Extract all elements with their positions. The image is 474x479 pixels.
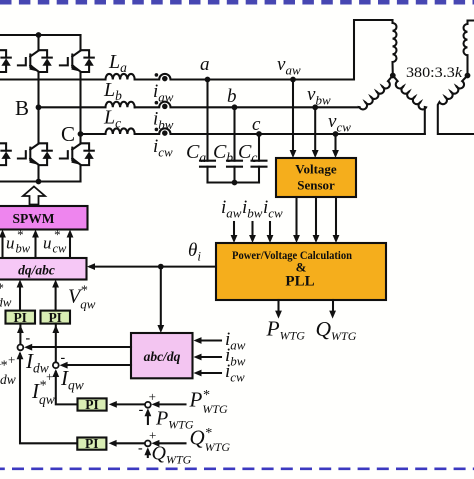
transformer primary wye: right winding	[393, 76, 426, 135]
node: junction on - rail	[36, 179, 42, 185]
transistor S1 (top, phase a, partially cut)	[0, 50, 11, 72]
wire+arrow: v_aw into voltage sensor	[292, 80, 294, 152]
node C junction	[78, 131, 84, 137]
summing junction (Q loop)	[145, 441, 151, 447]
current sensor iaw	[155, 73, 168, 81]
svg-text:PI: PI	[48, 310, 62, 325]
wire+arrow: P*_WTG into summing	[157, 403, 186, 405]
transistor S2 (bottom, phase c)	[60, 143, 94, 165]
wire+arrow: I_dw to summing1	[30, 346, 131, 348]
summing junction (P loop)	[145, 402, 151, 408]
current sensor ibw	[155, 101, 168, 109]
wire: phase-b line	[39, 102, 135, 108]
transistor S5 (top, phase c)	[60, 50, 94, 72]
transistor S4 (bottom, phase a, partially cut)	[0, 143, 11, 165]
wire: DC positive rail	[0, 34, 81, 36]
transistor S6 (bottom, phase b)	[18, 143, 52, 165]
wire+arrow: Q*_WTG into summing	[157, 442, 186, 444]
wire+arrow: modulation signal into SPWM	[1, 236, 3, 258]
wire+arrow: summing2 up into PI2	[55, 324, 57, 362]
block: PI (P loop)	[78, 397, 107, 412]
wire+arrow: V* into dq/abc	[19, 286, 21, 311]
block: Voltage Sensor	[276, 158, 356, 197]
transformer primary neutral node	[390, 73, 396, 79]
wire+arrow: summing1 up into PI1	[19, 324, 21, 344]
svg-text:PI: PI	[85, 397, 99, 412]
block arrow: gate signals into inverter	[23, 187, 45, 205]
svg-text:Sensor: Sensor	[297, 178, 335, 193]
wire+arrow: V* into dq/abc	[55, 286, 57, 311]
wire+arrow: i_cw into abc/dq	[200, 372, 221, 374]
block: Power/Voltage Calculation & PLL	[216, 243, 386, 300]
wire+arrow: v_cw into voltage sensor	[334, 134, 336, 151]
svg-text:-: -	[139, 403, 144, 418]
svg-text:PI: PI	[13, 310, 27, 325]
svg-text:C: C	[61, 122, 75, 146]
svg-text:PLL: PLL	[285, 273, 314, 289]
wire+arrow: modulation signal into SPWM	[34, 236, 36, 258]
svg-text:Voltage: Voltage	[295, 162, 337, 177]
wire: leg3 vertical	[79, 35, 81, 182]
svg-text:abc/dq: abc/dq	[144, 349, 181, 364]
svg-text:b: b	[227, 86, 237, 107]
svg-text:380:3.3k: 380:3.3k	[406, 64, 462, 81]
svg-text:dq/abc: dq/abc	[18, 263, 55, 278]
wire: phase-c line	[81, 128, 135, 134]
wire+arrow: summingP to PI	[114, 403, 145, 405]
block: dq/abc	[0, 258, 87, 280]
inductor La coil already in path; sensor gap	[135, 20, 393, 80]
wire+arrow: theta down to abc/dq	[160, 267, 162, 326]
summing junction (d-axis)	[18, 345, 24, 351]
wire+arrow: I*_qw from P-loop PI up into summing2	[56, 372, 78, 404]
wire: theta from PLL to dq/abc	[90, 266, 216, 268]
svg-text:SPWM: SPWM	[13, 211, 55, 226]
svg-text:-: -	[138, 441, 143, 456]
svg-text:+: +	[149, 428, 156, 443]
wire+arrow: I_qw to summing2	[66, 364, 131, 366]
wire+arrow: current into PLL	[233, 222, 235, 236]
wire: capacitor common rail	[208, 181, 260, 183]
svg-text:-: -	[26, 331, 31, 346]
capacitor Ca	[186, 80, 215, 183]
transformer primary wye: left winding	[359, 76, 392, 110]
svg-text:+: +	[8, 352, 15, 367]
block: abc/dq	[131, 333, 193, 378]
transformer secondary wye: top winding	[463, 21, 474, 76]
block: PI (q-axis)	[41, 310, 71, 325]
capacitor Cc	[238, 134, 267, 183]
wire+arrow: Q_WTG feedback up	[147, 451, 149, 458]
current sensor icw	[155, 128, 168, 136]
svg-text:PI: PI	[85, 436, 99, 451]
svg-text:&: &	[296, 260, 307, 275]
dashed figure border (bottom)	[0, 467, 474, 470]
wire+arrow: voltage sensor output	[295, 197, 297, 236]
block: SPWM	[0, 206, 88, 230]
wire+arrow: P_WTG output	[277, 300, 279, 313]
svg-text:+: +	[149, 389, 156, 404]
wire+arrow: voltage sensor output	[335, 197, 337, 236]
node B junction	[36, 104, 42, 110]
wire+arrow: i_bw into abc/dq	[200, 356, 221, 358]
svg-text:Power/Voltage Calculation: Power/Voltage Calculation	[232, 250, 353, 262]
wire+arrow: current into PLL	[251, 222, 253, 236]
summing junction (q-axis)	[53, 362, 59, 368]
capacitor Cb	[213, 107, 242, 182]
dashed figure border (top)	[0, 0, 474, 5]
wire+arrow: v_bw into voltage sensor	[314, 107, 316, 151]
block: PI (Q loop)	[77, 436, 106, 451]
wire+arrow: P_WTG feedback up	[147, 412, 149, 424]
wire+arrow: current into PLL	[269, 222, 271, 236]
wire+arrow: Q_WTG output	[332, 300, 334, 313]
transistor S3 (top, phase b)	[18, 50, 52, 72]
wire: phase-a line to transformer	[0, 74, 135, 80]
wire+arrow: voltage sensor output	[315, 197, 317, 236]
transformer secondary wye: left winding	[438, 76, 474, 135]
block: PI (d-axis)	[6, 310, 36, 325]
wire: leg2 vertical	[37, 35, 39, 182]
transformer secondary neutral node	[465, 73, 471, 79]
wire+arrow: I*_dw from Q-loop PI up into summing1	[20, 354, 77, 443]
node: junction on + rail	[36, 32, 42, 38]
wire+arrow: modulation signal into SPWM	[69, 236, 71, 258]
svg-text:a: a	[200, 54, 210, 75]
wire+arrow: i_aw into abc/dq	[200, 339, 221, 341]
svg-text:B: B	[15, 96, 29, 120]
wire: DC negative rail	[0, 180, 81, 182]
wire+arrow: summingQ to PI	[114, 442, 145, 444]
transformer primary wye: top winding	[392, 20, 396, 76]
